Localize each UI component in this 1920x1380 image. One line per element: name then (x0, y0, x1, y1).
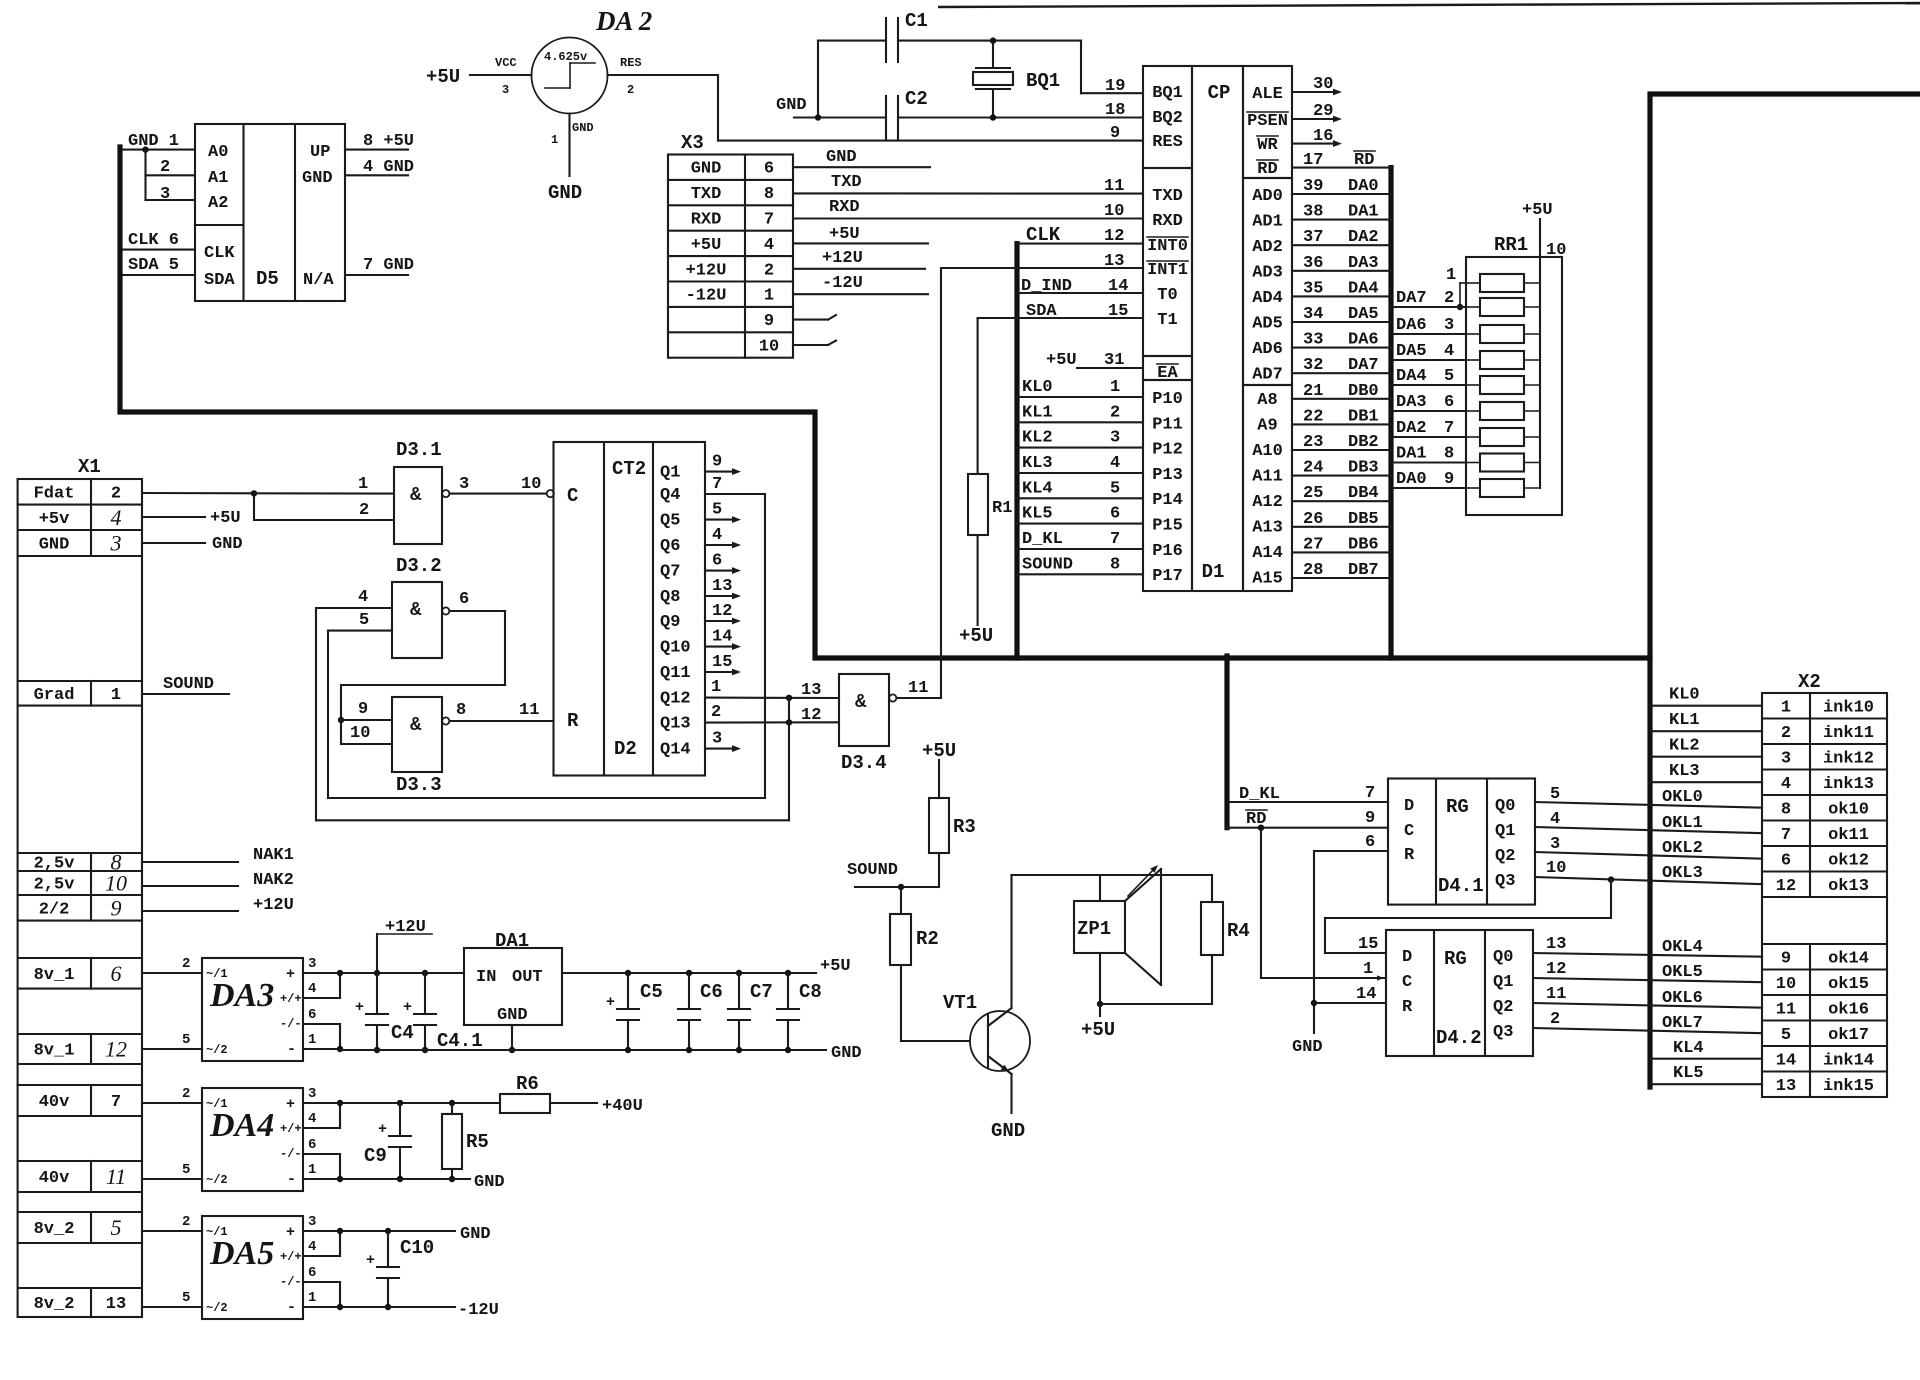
svg-text:GND: GND (831, 1044, 862, 1063)
svg-text:11: 11 (1104, 177, 1124, 196)
svg-text:Q2: Q2 (1495, 847, 1515, 866)
svg-text:40v: 40v (39, 1093, 70, 1112)
svg-text:+12U: +12U (253, 896, 294, 915)
svg-text:DA5: DA5 (1396, 342, 1427, 361)
svg-text:OKL6: OKL6 (1662, 989, 1703, 1008)
svg-text:GND: GND (497, 1006, 528, 1025)
svg-text:&: & (410, 599, 422, 621)
svg-text:GND: GND (776, 96, 807, 115)
svg-text:+: + (286, 966, 295, 983)
wire D2 Q9 pin 12 stub (705, 620, 735, 622)
svg-text:6: 6 (1365, 833, 1375, 852)
svg-text:C9: C9 (364, 1145, 387, 1167)
svg-text:ok13: ok13 (1828, 877, 1869, 896)
svg-text:DA2: DA2 (1348, 228, 1379, 247)
wire DA5 - rail to -12V (340, 1306, 455, 1308)
wire D4.2 pin 14 R (1314, 1002, 1386, 1004)
svg-text:+5U: +5U (1046, 351, 1077, 370)
svg-text:&: & (410, 714, 422, 736)
svg-text:SDA 5: SDA 5 (128, 256, 179, 275)
svg-text:R5: R5 (466, 1131, 489, 1153)
GND rail under DA1 (340, 1049, 826, 1051)
svg-text:Q1: Q1 (660, 464, 680, 483)
svg-text:+: + (366, 1252, 375, 1269)
svg-text:D_KL: D_KL (1239, 785, 1280, 804)
svg-text:C: C (1402, 973, 1412, 992)
wire D4.1 pin 6 R to GND (1314, 850, 1388, 852)
resistor R1 pull-up on SDA (977, 318, 979, 474)
wire D1 pin 16 WR (1292, 143, 1336, 145)
svg-text:9: 9 (111, 895, 122, 920)
wire KL5 bus to X2 (1650, 1083, 1762, 1085)
wire D1 pin 28 A15 net DB7 (1292, 577, 1391, 579)
svg-text:13: 13 (1104, 252, 1124, 271)
capacitor C10 (387, 1231, 389, 1267)
svg-text:Q5: Q5 (660, 512, 680, 531)
svg-text:RD: RD (1354, 151, 1374, 170)
svg-text:8v_2: 8v_2 (34, 1220, 75, 1239)
svg-text:Q1: Q1 (1495, 822, 1515, 841)
svg-text:Q1: Q1 (1493, 973, 1513, 992)
svg-text:+5U: +5U (829, 225, 860, 244)
svg-text:DB7: DB7 (1348, 561, 1379, 580)
wire D1 pin 35 AD4 net DA4 (1292, 295, 1391, 297)
svg-text:3: 3 (1781, 749, 1791, 768)
wire net DA3 to RR1 pin 6 (1391, 410, 1466, 412)
svg-text:10: 10 (1546, 241, 1566, 260)
svg-text:AD4: AD4 (1252, 289, 1283, 308)
svg-text:GND: GND (572, 121, 594, 135)
svg-text:8: 8 (1110, 555, 1120, 574)
svg-text:10: 10 (350, 724, 370, 743)
connector X2 (1762, 693, 1887, 1097)
ground bus thick line from D5 area (120, 147, 1650, 658)
svg-text:2/2: 2/2 (39, 900, 70, 919)
svg-text:2: 2 (1781, 724, 1791, 743)
svg-text:Q8: Q8 (660, 588, 680, 607)
svg-text:GND 1: GND 1 (128, 132, 179, 151)
svg-text:A11: A11 (1252, 468, 1283, 487)
wire D2 Q14 pin 3 stub (705, 748, 735, 750)
svg-text:9: 9 (764, 312, 774, 331)
bus CLK vertical (1014, 244, 1019, 658)
svg-text:4: 4 (1550, 810, 1560, 829)
svg-text:DA1: DA1 (1348, 203, 1379, 222)
svg-text:R: R (567, 710, 579, 732)
svg-text:2: 2 (1444, 289, 1454, 308)
svg-text:Q3: Q3 (1495, 872, 1515, 891)
svg-text:OKL3: OKL3 (1662, 864, 1703, 883)
svg-text:ok10: ok10 (1828, 800, 1869, 819)
svg-text:N/A: N/A (303, 271, 334, 290)
svg-text:VCC: VCC (495, 56, 517, 70)
svg-text:DA1: DA1 (495, 930, 529, 952)
svg-text:17: 17 (1303, 151, 1323, 170)
svg-text:+5U: +5U (959, 625, 993, 647)
wire KL2 bus to X2 (1650, 756, 1762, 758)
svg-text:5: 5 (182, 1290, 190, 1306)
svg-text:7: 7 (1365, 784, 1375, 803)
wire X1 pin 1 Grad SOUND (142, 693, 229, 695)
svg-text:ZP1: ZP1 (1077, 918, 1111, 940)
voltage regulator DA4 (202, 1088, 303, 1191)
svg-text:RXD: RXD (1152, 212, 1183, 231)
wire net DA1 to RR1 pin 8 (1391, 461, 1466, 463)
wire KL0 bus to D1 pin 1 P10 (1017, 396, 1143, 398)
wire X1 pin 5 to DA5 pin 2 (142, 1230, 202, 1232)
wire ZP1 bottom to +5V and R4 (1099, 953, 1101, 1004)
svg-text:GND: GND (212, 535, 243, 554)
svg-text:39: 39 (1303, 177, 1323, 196)
svg-text:INT1: INT1 (1147, 261, 1188, 280)
wire D3.2 pin 5 input feedback (328, 630, 392, 632)
svg-text:2: 2 (160, 158, 170, 177)
svg-text:7 GND: 7 GND (363, 256, 414, 275)
wire KL1 bus to X2 (1650, 730, 1762, 732)
svg-text:WR: WR (1257, 136, 1278, 155)
wire D4.1 Q3 pin 10 to OKL3 and D4.2 pin 15 (1535, 877, 1762, 884)
wire X1 pin 8 NAK1 (142, 861, 238, 863)
svg-text:D3.1: D3.1 (396, 439, 442, 461)
svg-text:RXD: RXD (691, 211, 722, 230)
svg-text:2: 2 (182, 1086, 190, 1102)
svg-text:6: 6 (1781, 851, 1791, 870)
svg-text:AD6: AD6 (1252, 340, 1283, 359)
svg-text:DB2: DB2 (1348, 433, 1379, 452)
svg-text:+5U: +5U (426, 66, 460, 88)
svg-text:+12U: +12U (686, 261, 727, 280)
svg-text:D_KL: D_KL (1022, 530, 1063, 549)
svg-text:+12U: +12U (822, 249, 863, 268)
svg-text:Q7: Q7 (660, 563, 680, 582)
capacitor C4 (376, 973, 378, 1014)
svg-text:PSEN: PSEN (1247, 112, 1288, 131)
svg-text:ink12: ink12 (1823, 749, 1874, 768)
svg-text:DA1: DA1 (1396, 445, 1427, 464)
wire D3.3 pin 10 input (341, 743, 392, 745)
svg-text:-/-: -/- (280, 1147, 302, 1161)
svg-text:A15: A15 (1252, 570, 1283, 589)
wire VT1 collector to speaker node (1010, 875, 1012, 1008)
svg-text:CP: CP (1208, 82, 1231, 104)
svg-text:C2: C2 (905, 88, 928, 110)
svg-text:-: - (287, 1041, 296, 1058)
svg-text:OKL0: OKL0 (1662, 788, 1703, 807)
svg-text:AD7: AD7 (1252, 366, 1283, 385)
svg-text:KL0: KL0 (1669, 686, 1700, 705)
svg-text:NAK2: NAK2 (253, 871, 294, 890)
svg-text:5: 5 (712, 501, 722, 520)
svg-text:-: - (287, 1171, 296, 1188)
svg-text:SOUND: SOUND (847, 861, 898, 880)
crystal BQ1 (973, 72, 1013, 85)
svg-text:15: 15 (1358, 935, 1378, 954)
wire D_KL to D4.1 pin 7 (1227, 801, 1388, 803)
wire X1 pin 3 GND (142, 542, 205, 544)
svg-text:9: 9 (1781, 949, 1791, 968)
wire D2 Q13 pin 2 to D3.4 pin 12 (705, 721, 839, 723)
svg-text:ink11: ink11 (1823, 724, 1874, 743)
svg-text:1: 1 (358, 475, 368, 494)
svg-text:7: 7 (1444, 419, 1454, 438)
svg-text:ok14: ok14 (1828, 949, 1869, 968)
svg-text:3: 3 (160, 185, 170, 204)
svg-text:12: 12 (1104, 227, 1124, 246)
wire X1 pin 13 to DA5 pin 5 (142, 1306, 202, 1308)
wire D_IND bus to D1 pin 14 T0 (1017, 292, 1143, 294)
svg-text:7: 7 (111, 1093, 121, 1112)
svg-text:X3: X3 (681, 132, 704, 154)
wire net DA4 to RR1 pin 5 (1391, 384, 1466, 386)
svg-text:8v_1: 8v_1 (34, 1042, 75, 1061)
svg-text:22: 22 (1303, 407, 1323, 426)
svg-text:6: 6 (308, 1265, 316, 1281)
svg-text:11: 11 (1776, 1000, 1796, 1019)
wire C1 to D1 pin 19 (1080, 41, 1082, 94)
svg-text:11: 11 (1546, 985, 1566, 1004)
svg-text:ok15: ok15 (1828, 975, 1869, 994)
wire net DA5 to RR1 pin 4 (1391, 359, 1466, 361)
wire D1 pin 24 A11 net DB3 (1292, 475, 1391, 477)
svg-text:3: 3 (502, 83, 509, 97)
svg-text:3: 3 (308, 1214, 316, 1230)
svg-text:32: 32 (1303, 356, 1323, 375)
wire SOUND bus to D1 pin 8 P17 (1017, 573, 1143, 575)
wire X1 pin 9 +12V (142, 910, 238, 912)
svg-text:ok12: ok12 (1828, 851, 1869, 870)
svg-text:DA4: DA4 (1396, 367, 1427, 386)
svg-text:13: 13 (712, 577, 732, 596)
svg-text:DA5: DA5 (209, 1235, 274, 1272)
svg-text:CLK: CLK (204, 244, 235, 263)
svg-text:1: 1 (1446, 266, 1456, 285)
svg-text:19: 19 (1105, 77, 1125, 96)
svg-text:DA7: DA7 (1396, 289, 1427, 308)
svg-text:NAK1: NAK1 (253, 846, 294, 865)
svg-text:35: 35 (1303, 279, 1323, 298)
svg-text:INT0: INT0 (1147, 237, 1188, 256)
svg-text:DA3: DA3 (1396, 393, 1427, 412)
svg-text:P12: P12 (1152, 441, 1183, 460)
wire Q12/Q13 feedback to D3.2 pin 4 (788, 698, 790, 821)
svg-text:DA4: DA4 (1348, 279, 1379, 298)
wire X1 pin 6 to DA3 pin 2 (142, 972, 202, 974)
svg-text:-12U: -12U (686, 287, 727, 306)
wire KL2 bus to D1 pin 3 P12 (1017, 447, 1143, 449)
svg-text:D2: D2 (614, 738, 637, 760)
svg-text:4: 4 (1110, 454, 1120, 473)
bus D_KL/RD vertical (1224, 656, 1229, 828)
wire GND vertical for D4.1/D4.2 R pins (1313, 851, 1315, 1033)
wire D1 pin 36 AD3 net DA3 (1292, 270, 1391, 272)
svg-text:37: 37 (1303, 228, 1323, 247)
svg-text:25: 25 (1303, 484, 1323, 503)
svg-text:12: 12 (1546, 960, 1566, 979)
svg-text:31: 31 (1104, 351, 1124, 370)
svg-text:4: 4 (308, 1239, 316, 1255)
svg-text:27: 27 (1303, 535, 1323, 554)
svg-text:R2: R2 (916, 928, 939, 950)
svg-text:+: + (286, 1224, 295, 1241)
svg-text:OKL5: OKL5 (1662, 963, 1703, 982)
wire X1 Fdat to D3.1 pins 1,2 (142, 492, 394, 495)
svg-text:+/+: +/+ (280, 1250, 302, 1264)
wire D_KL bus to D1 pin 7 P16 (1017, 548, 1143, 550)
svg-text:KL2: KL2 (1022, 429, 1053, 448)
svg-text:1: 1 (764, 287, 774, 306)
svg-text:4: 4 (308, 1111, 316, 1127)
svg-text:AD2: AD2 (1252, 238, 1283, 257)
wire D4.2 Q2 pin 11 to OKL6 (1533, 1003, 1762, 1008)
capacitor C5 (625, 970, 631, 976)
svg-text:9: 9 (1444, 470, 1454, 489)
svg-text:R4: R4 (1227, 920, 1250, 942)
svg-text:6: 6 (459, 590, 469, 609)
resistor R6 (500, 1094, 550, 1113)
svg-text:RES: RES (620, 56, 642, 70)
svg-text:OKL2: OKL2 (1662, 839, 1703, 858)
voltage supervisor DA2 (532, 38, 608, 114)
svg-text:28: 28 (1303, 561, 1323, 580)
svg-text:+40U: +40U (602, 1097, 643, 1116)
wire KL4 bus to X2 (1650, 1058, 1762, 1060)
svg-text:~/2: ~/2 (206, 1301, 228, 1315)
wire D2 Q4 pin 7 feedback to D3.2 pin 5 (705, 493, 765, 495)
svg-text:Q4: Q4 (660, 486, 680, 505)
svg-text:ink15: ink15 (1823, 1077, 1874, 1096)
svg-text:A1: A1 (208, 169, 228, 188)
svg-text:33: 33 (1303, 331, 1323, 350)
svg-text:3: 3 (110, 531, 122, 556)
wire +5V to D1 pin 31 EA (1077, 367, 1143, 369)
svg-text:Q3: Q3 (1493, 1023, 1513, 1042)
svg-text:KL5: KL5 (1022, 505, 1053, 524)
wire KL3 bus to X2 (1650, 781, 1762, 783)
capacitor C6 (686, 970, 692, 976)
wire net DA6 to RR1 pin 3 (1391, 333, 1466, 335)
svg-text:TXD: TXD (691, 185, 722, 204)
svg-text:C10: C10 (400, 1237, 434, 1259)
svg-text:4: 4 (111, 505, 122, 530)
svg-text:GND: GND (460, 1225, 491, 1244)
wire D2 Q5 pin 5 stub (705, 519, 735, 521)
wire KL5 bus to D1 pin 6 P15 (1017, 523, 1143, 525)
svg-text:4: 4 (1444, 342, 1454, 361)
svg-text:18: 18 (1105, 101, 1125, 120)
svg-text:+: + (403, 999, 412, 1016)
svg-text:+12U: +12U (385, 918, 426, 937)
svg-text:AD5: AD5 (1252, 315, 1283, 334)
svg-text:A8: A8 (1257, 391, 1277, 410)
svg-text:9: 9 (1365, 809, 1375, 828)
svg-text:12: 12 (801, 706, 821, 725)
svg-text:1: 1 (308, 1162, 316, 1178)
svg-text:2: 2 (359, 501, 369, 520)
svg-text:6: 6 (712, 552, 722, 571)
svg-text:GND: GND (474, 1173, 505, 1192)
svg-text:+: + (606, 994, 615, 1011)
svg-text:+5U: +5U (820, 957, 851, 976)
svg-text:8: 8 (1444, 445, 1454, 464)
svg-text:RES: RES (1152, 133, 1183, 152)
svg-text:5: 5 (182, 1032, 190, 1048)
svg-text:~/2: ~/2 (206, 1043, 228, 1057)
svg-text:C6: C6 (700, 981, 723, 1003)
svg-text:2: 2 (111, 484, 121, 503)
svg-text:ok16: ok16 (1828, 1000, 1869, 1019)
resistor R3 (929, 798, 949, 853)
svg-text:9: 9 (712, 453, 722, 472)
svg-text:P16: P16 (1152, 542, 1183, 561)
NAND gate D3.4 (839, 674, 889, 746)
svg-text:DA0: DA0 (1396, 470, 1427, 489)
voltage regulator DA1 (464, 948, 562, 1025)
svg-text:DA0: DA0 (1348, 177, 1379, 196)
svg-text:D_IND: D_IND (1021, 277, 1072, 296)
NAND gate D3.3 (392, 697, 442, 772)
svg-text:16: 16 (1313, 127, 1333, 146)
stub X3 pin 10 (793, 344, 828, 346)
svg-text:DA4: DA4 (209, 1107, 274, 1144)
svg-text:4 GND: 4 GND (363, 158, 414, 177)
svg-text:5: 5 (1781, 1026, 1791, 1045)
svg-text:12: 12 (1776, 877, 1796, 896)
wire D2 Q7 pin 6 stub (705, 570, 735, 572)
svg-text:8 +5U: 8 +5U (363, 132, 414, 151)
svg-text:13: 13 (1776, 1077, 1796, 1096)
svg-text:8: 8 (1781, 800, 1791, 819)
wire D1 pin 17 RD to bus (1292, 167, 1391, 169)
svg-text:OKL1: OKL1 (1662, 814, 1703, 833)
svg-text:SOUND: SOUND (163, 675, 214, 694)
svg-text:DA3: DA3 (209, 977, 274, 1014)
wire D1 pin 26 A13 net DB5 (1292, 526, 1391, 528)
svg-text:14: 14 (1776, 1051, 1796, 1070)
wire 8V rail to DA1 IN (340, 972, 464, 974)
transistor VT1 (970, 1011, 1030, 1071)
svg-text:Q9: Q9 (660, 613, 680, 632)
wire X1 pin 11 to DA4 pin 5 (142, 1178, 202, 1180)
svg-text:OKL7: OKL7 (1662, 1014, 1703, 1033)
wire CLK bus to D1 pin 12 INT0 (1017, 243, 1143, 245)
resistor R5 (451, 1103, 453, 1114)
wire D1 pin 25 A12 net DB4 (1292, 500, 1391, 502)
svg-text:13: 13 (106, 1295, 126, 1314)
svg-text:1: 1 (308, 1290, 316, 1306)
svg-text:RR1: RR1 (1494, 234, 1528, 256)
svg-text:DA3: DA3 (1348, 254, 1379, 273)
wire D1 pin 32 AD7 net DA7 (1292, 372, 1391, 374)
svg-text:P11: P11 (1152, 415, 1183, 434)
register D4.2 (RG) (1386, 930, 1533, 1056)
svg-text:C1: C1 (905, 10, 928, 32)
svg-text:15: 15 (712, 653, 732, 672)
svg-text:BQ1: BQ1 (1152, 84, 1183, 103)
svg-text:D4.2: D4.2 (1436, 1027, 1482, 1049)
wire D2 Q10 pin 14 stub (705, 646, 735, 648)
wire D4.2 Q3 pin 2 to OKL7 (1533, 1028, 1762, 1033)
wire D1 pin 22 A9 net DB1 (1292, 423, 1391, 425)
svg-text:C: C (567, 485, 578, 507)
svg-text:5: 5 (111, 1215, 122, 1240)
svg-text:A14: A14 (1252, 544, 1283, 563)
svg-text:AD3: AD3 (1252, 264, 1283, 283)
wire D4.2 Q1 pin 12 to OKL5 (1533, 978, 1762, 982)
svg-text:ink13: ink13 (1823, 775, 1874, 794)
svg-text:Q0: Q0 (1493, 948, 1513, 967)
wire KL0 bus to X2 (1650, 705, 1762, 707)
svg-text:6: 6 (308, 1007, 316, 1023)
